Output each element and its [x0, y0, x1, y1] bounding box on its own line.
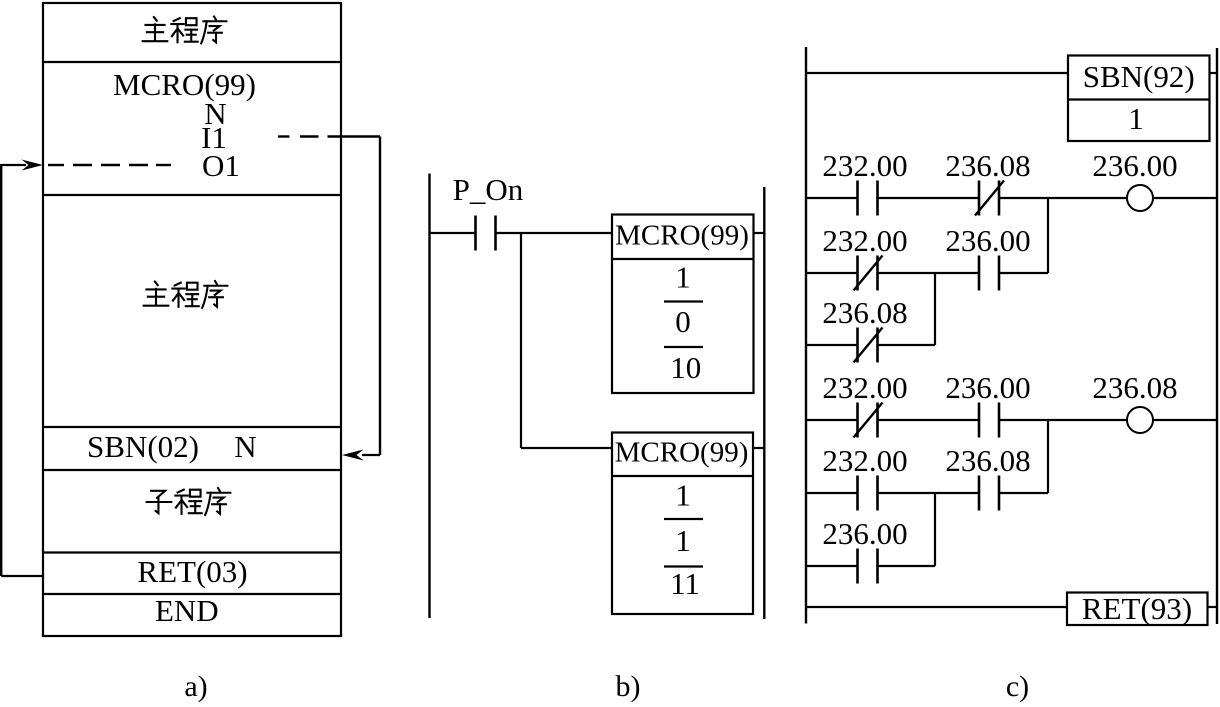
- contact 232.00 NC (rung2): [854, 256, 883, 291]
- svg-text:0: 0: [675, 304, 691, 339]
- wire branch rung3 up-join vertical: [934, 273, 936, 345]
- svg-text:P_On: P_On: [453, 172, 524, 207]
- MCRO box 2 header divider: [612, 475, 753, 477]
- wire branch rung6 up-join vertical: [934, 493, 936, 566]
- wire rung1 rail to contact: [806, 197, 858, 199]
- instruction box MCRO(99) #1: [612, 215, 754, 394]
- wire branch rung2 up-join vertical: [1047, 198, 1049, 273]
- svg-text:O1: O1: [202, 148, 240, 183]
- svg-text:232.00: 232.00: [822, 443, 907, 478]
- wire rung to SBN box: [806, 72, 1068, 74]
- wire SBN box output to right rail: [1210, 72, 1218, 74]
- wire rung4 coil to right rail: [1153, 419, 1217, 421]
- left power rail (part c): [805, 47, 807, 624]
- MCRO box 1 header divider: [612, 258, 754, 260]
- wire MCRO box 2 output to right rail: [753, 447, 764, 449]
- wire rung to RET box: [806, 606, 1067, 608]
- wire MCRO box 1 output to right rail: [754, 232, 765, 234]
- separator under operand 1 (box1): [664, 300, 703, 302]
- contact 236.08 NC (rung1): [975, 181, 1004, 216]
- wire rail to P_On contact: [430, 232, 476, 234]
- wire rung3 rail to contact: [806, 344, 858, 346]
- svg-text:1: 1: [675, 260, 691, 295]
- svg-text:236.00: 236.00: [822, 516, 907, 551]
- contact 236.00 NO (rung2): [979, 256, 999, 291]
- svg-text:232.00: 232.00: [822, 148, 907, 183]
- program structure box outline (part a): [43, 3, 341, 636]
- dashed wire from arrow to O1: [48, 164, 171, 166]
- svg-text:236.00: 236.00: [1092, 148, 1177, 183]
- svg-text:MCRO(99): MCRO(99): [615, 220, 749, 252]
- wire rung3 to join: [878, 344, 936, 346]
- wire RET box output to right rail: [1208, 606, 1218, 608]
- wire rung6 rail to contact: [806, 565, 858, 567]
- svg-text:232.00: 232.00: [822, 223, 907, 258]
- svg-text:236.08: 236.08: [822, 295, 907, 330]
- divider above RET(03) row: [43, 551, 341, 553]
- wire P_On contact to MCRO box 1: [496, 232, 613, 234]
- svg-text:10: 10: [670, 350, 701, 385]
- wire branch vertical to MCRO box 2: [520, 233, 522, 448]
- wire rung1 between contacts: [878, 197, 980, 199]
- svg-text:MCRO(99): MCRO(99): [113, 67, 256, 102]
- instruction box RET(93): [1067, 593, 1208, 626]
- wire rung5 rail to contact: [806, 492, 858, 494]
- svg-text:N: N: [234, 429, 256, 464]
- separator under operand 1a (box2): [664, 518, 703, 520]
- svg-text:236.08: 236.08: [1092, 370, 1177, 405]
- contact 236.00 NO (rung4): [979, 403, 999, 438]
- text 主程序 (main program, top row): [143, 17, 227, 44]
- svg-text:RET(03): RET(03): [137, 554, 247, 589]
- svg-text:END: END: [155, 593, 219, 628]
- contact 232.00 NO (rung5): [858, 476, 878, 511]
- svg-text:1: 1: [675, 523, 691, 558]
- wire rung2 to join: [1000, 272, 1049, 274]
- wire rung4 rail to contact: [806, 419, 858, 421]
- dashed wire from I1 to right connector: [278, 135, 380, 137]
- separator under operand 0 (box1): [664, 346, 703, 348]
- svg-text:232.00: 232.00: [822, 370, 907, 405]
- divider above SBN(02) row: [43, 426, 341, 428]
- divider above END row: [43, 593, 341, 595]
- output coil 236.08 (rung4): [1127, 407, 1153, 433]
- svg-text:236.08: 236.08: [945, 148, 1030, 183]
- wire left connector bottom horizontal: [1, 575, 43, 577]
- svg-text:1: 1: [1128, 101, 1144, 136]
- svg-text:b): b): [616, 670, 641, 702]
- wire rung5 to join: [1000, 492, 1049, 494]
- contact P_On (normally open): [476, 216, 496, 251]
- left power rail (part b): [428, 174, 430, 619]
- contact 236.08 NC (rung3): [854, 328, 883, 363]
- svg-text:a): a): [184, 670, 207, 702]
- svg-text:1: 1: [675, 478, 691, 513]
- svg-text:236.00: 236.00: [945, 370, 1030, 405]
- contact 232.00 NO (rung1): [858, 181, 878, 216]
- divider below SBN(02) row: [43, 469, 341, 471]
- svg-text:236.00: 236.00: [945, 223, 1030, 258]
- wire rung4 contact to coil: [1000, 419, 1128, 421]
- contact 232.00 NC (rung4): [854, 403, 883, 438]
- text 主程序 (main program, middle row): [144, 281, 228, 308]
- svg-text:SBN(92): SBN(92): [1083, 59, 1195, 94]
- wire right connector horizontal to SBN row: [362, 454, 380, 456]
- SBN box header divider: [1068, 98, 1210, 100]
- wire rung1 contact to coil: [1000, 197, 1128, 199]
- wire rung2 rail to contact: [806, 272, 858, 274]
- svg-text:SBN(02): SBN(02): [87, 429, 199, 464]
- instruction box MCRO(99) #2: [612, 433, 753, 615]
- right power rail (part b): [763, 187, 765, 619]
- divider below MCRO block row: [43, 194, 341, 196]
- wire left connector top horizontal (to arrow): [1, 164, 26, 166]
- instruction box SBN(92): [1068, 56, 1210, 142]
- divider below first 主程序 row: [43, 61, 341, 63]
- right power rail (part c): [1216, 48, 1218, 624]
- contact 236.00 NO (rung6): [858, 549, 878, 584]
- svg-text:11: 11: [670, 566, 700, 601]
- svg-text:MCRO(99): MCRO(99): [615, 437, 749, 469]
- text 子程序 (subroutine): [147, 488, 231, 515]
- wire branch horizontal to MCRO box 2: [521, 447, 612, 449]
- svg-text:c): c): [1006, 670, 1029, 702]
- wire rung1 coil to right rail: [1153, 197, 1217, 199]
- wire rung4 between contacts: [878, 419, 980, 421]
- wire branch rung5 up-join vertical: [1047, 420, 1049, 493]
- contact 236.08 NO (rung5): [979, 476, 999, 511]
- svg-text:RET(93): RET(93): [1082, 591, 1192, 626]
- wire left connector vertical: [0, 164, 2, 576]
- wire rung6 to join: [878, 565, 936, 567]
- arrowhead pointing left into SBN row: [342, 450, 364, 461]
- separator under operand 1b (box2): [664, 565, 703, 567]
- output coil 236.00 (rung1): [1127, 185, 1153, 211]
- wire right connector vertical: [379, 137, 381, 456]
- wire rung5 between contacts: [878, 492, 980, 494]
- svg-text:236.08: 236.08: [945, 443, 1030, 478]
- arrowhead pointing right into O1 row: [22, 160, 44, 171]
- wire rung2 between contacts: [878, 272, 980, 274]
